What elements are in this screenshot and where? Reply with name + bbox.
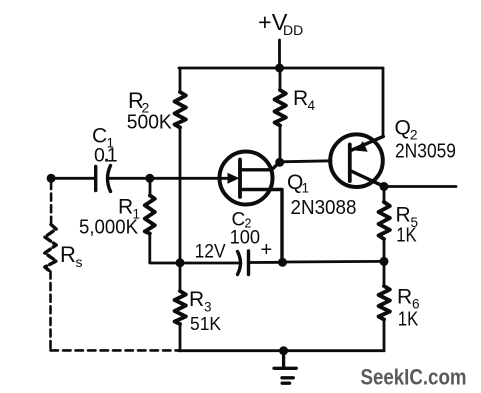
svg-text:1K: 1K [398,308,419,331]
svg-text:R: R [397,286,412,309]
node gate junction [145,174,154,183]
svg-text:4: 4 [308,98,316,113]
svg-text:51K: 51K [190,313,222,334]
svg-text:Q: Q [395,117,411,140]
svg-text:R: R [60,242,76,267]
node mid-left junction [176,258,185,267]
node emitter output junction [380,182,389,191]
capacitor C2 [238,251,249,275]
capacitor C2 label [230,210,273,262]
svg-text:s: s [76,254,83,270]
svg-text:500K: 500K [127,111,172,134]
svg-text:R: R [293,87,308,110]
svg-text:2N3059: 2N3059 [395,141,456,163]
transistor Q2 2N3059 [330,134,384,187]
svg-text:2N3088: 2N3088 [291,197,357,219]
node source junction [278,258,287,267]
wire source node to R5-R6 node [283,260,385,263]
resistor R3 [175,291,186,324]
svg-text:12V: 12V [195,242,226,263]
wire R1 bottom to mid-left node [150,234,180,264]
resistor R4 [275,90,286,126]
svg-text:R: R [118,196,133,219]
wire C2 to source node [249,261,283,264]
wire input to C1 [51,177,94,180]
wire R6 bottom lead [383,320,386,351]
node input terminal [47,174,56,183]
resistor R2 [175,92,186,128]
wire R4 top lead [279,68,282,90]
svg-text:5,000K: 5,000K [79,217,139,239]
resistor R6 [379,286,390,320]
wire R1 top lead [149,178,152,195]
svg-text:+: + [261,239,273,261]
resistor R5 [379,202,390,239]
svg-text:100: 100 [230,228,261,249]
wire gate node to Q1 gate [150,177,228,180]
resistor R3 label [189,288,222,334]
capacitor C1 [96,166,111,192]
wire Q2 collector branch [382,68,385,137]
svg-text:DD: DD [283,22,303,38]
node VDD junction [275,64,284,73]
node +VDD label [258,9,303,38]
node ground junction [279,346,288,355]
svg-text:R: R [189,288,204,311]
resistor Rs dashed [45,225,56,272]
resistor R2 label [127,88,172,134]
wire R3 bottom lead [179,324,182,351]
resistor Rs label [60,242,83,270]
capacitor C1 label [92,125,118,167]
wire drain node to Q2 base [280,161,331,162]
svg-text:1: 1 [107,145,118,167]
svg-text:1: 1 [302,181,310,196]
transistor Q1 2N3088 JFET [220,152,283,263]
wire dashed Rs bottom drop [49,272,52,351]
svg-text:SeekIC.com: SeekIC.com [361,365,467,390]
wire R5 bottom lead [383,239,386,261]
wire R4 bottom lead [279,126,282,163]
transistor Q2 label [395,117,457,163]
svg-text:0: 0 [94,145,105,167]
wire R6 top lead [383,261,386,286]
wire dashed bottom run to ground rail [51,349,179,352]
node drain junction [275,158,284,167]
resistor R1 label [79,196,140,239]
wire R2 bottom to mid-left node [179,128,182,263]
resistor R4 label [293,87,316,113]
wire R2 top lead [179,68,182,92]
wire mid-left node to C2 [180,262,240,265]
wire output line [384,185,456,188]
resistor R1 [145,196,155,234]
ground [274,351,296,384]
wire R5 top lead [383,187,386,203]
resistor R6 label [397,286,420,331]
wire top supply rail [179,67,383,70]
wire +VDD stub [278,40,281,68]
wire C1 to gate node [108,177,150,180]
transistor Q1 label [287,171,357,219]
resistor R5 label [396,204,419,247]
wire bottom rail [179,349,384,352]
node R5-R6 junction [380,257,389,266]
svg-text:1K: 1K [396,224,417,247]
wire dashed input drop [50,182,53,224]
wire R3 top lead [179,263,182,291]
